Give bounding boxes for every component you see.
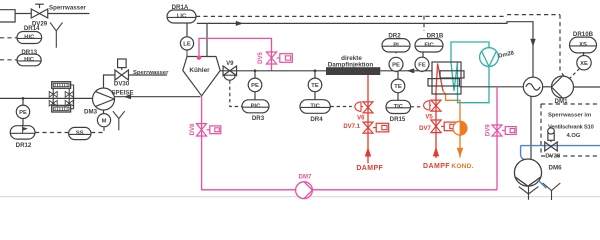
svg-text:Ventilschrank S10: Ventilschrank S10 — [548, 124, 594, 130]
svg-text:V6: V6 — [357, 116, 365, 122]
svg-text:XS: XS — [579, 42, 587, 48]
svg-text:PE: PE — [19, 110, 27, 116]
svg-text:V9: V9 — [226, 61, 234, 67]
svg-text:KOND.: KOND. — [451, 163, 473, 170]
svg-text:FE: FE — [418, 62, 426, 68]
svg-text:PE: PE — [251, 83, 259, 89]
svg-text:Sperrwasser im: Sperrwasser im — [548, 113, 591, 119]
svg-text:DV30: DV30 — [114, 80, 130, 87]
svg-text:SS: SS — [76, 131, 84, 137]
svg-text:DR4: DR4 — [310, 116, 323, 123]
svg-text:HIC: HIC — [24, 35, 35, 41]
svg-text:4.OG: 4.OG — [567, 133, 581, 139]
svg-text:TIC: TIC — [394, 104, 404, 110]
svg-text:Kühler: Kühler — [189, 67, 210, 74]
svg-text:DM3: DM3 — [84, 108, 98, 115]
svg-text:LE: LE — [183, 42, 191, 48]
svg-text:PE: PE — [392, 63, 400, 69]
svg-text:DR3: DR3 — [252, 115, 265, 122]
svg-text:TIC: TIC — [310, 104, 320, 110]
svg-text:Dampfinjektion: Dampfinjektion — [328, 61, 374, 68]
svg-text:DR2: DR2 — [388, 33, 401, 40]
svg-text:DR1B: DR1B — [427, 33, 444, 40]
svg-text:DM6: DM6 — [549, 164, 563, 171]
svg-text:DV5: DV5 — [258, 52, 264, 64]
svg-text:DV28: DV28 — [545, 153, 560, 159]
svg-text:DM7: DM7 — [299, 174, 312, 180]
svg-text:DV7: DV7 — [419, 126, 431, 132]
svg-text:TE: TE — [394, 84, 402, 90]
svg-text:HIC: HIC — [24, 57, 35, 63]
svg-text:LIC: LIC — [177, 14, 187, 20]
svg-text:TE: TE — [311, 83, 319, 89]
svg-text:DAMPF: DAMPF — [356, 165, 383, 172]
svg-text:DAMPF: DAMPF — [423, 163, 450, 170]
svg-text:Sperrwasser: Sperrwasser — [49, 4, 86, 11]
svg-text:DV8: DV8 — [190, 123, 196, 135]
svg-text:PI: PI — [393, 42, 399, 48]
svg-text:M: M — [102, 118, 107, 124]
svg-text:DV9: DV9 — [485, 124, 491, 136]
svg-text:SPEISE: SPEISE — [111, 89, 133, 96]
svg-text:FIC: FIC — [424, 42, 434, 48]
svg-text:Sperrwasser: Sperrwasser — [133, 70, 169, 76]
svg-text:DR12: DR12 — [16, 142, 32, 149]
svg-text:DV7.1: DV7.1 — [343, 124, 360, 130]
svg-text:DR15: DR15 — [390, 116, 406, 123]
svg-text:PIC: PIC — [251, 103, 261, 109]
svg-text:XE: XE — [580, 61, 588, 67]
